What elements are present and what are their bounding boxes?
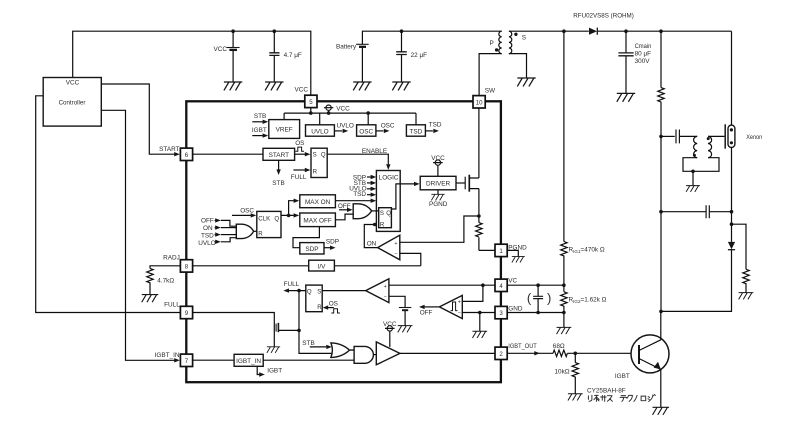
wire pin7 to IGBT_IN block	[193, 359, 235, 361]
wire G2 to latch C set	[372, 210, 379, 212]
or-gate G1 shutdown	[236, 224, 253, 238]
ground	[224, 82, 242, 90]
svg-text:PGND: PGND	[429, 201, 448, 208]
node junction VCC supply	[231, 29, 235, 33]
svg-text:5: 5	[309, 99, 313, 106]
ground branch of OFF comparator	[479, 313, 481, 332]
signal OSC into CLK	[232, 207, 256, 217]
signal OFF into G2	[338, 203, 353, 212]
svg-text:STB: STB	[272, 180, 284, 187]
wire OFF comparator minus to GND	[462, 312, 495, 314]
block I/V	[309, 260, 335, 271]
flip-flop CLK divider	[257, 211, 281, 237]
signal OFF into G1	[201, 218, 236, 227]
signal STB into gate G3	[302, 340, 332, 349]
node junction M2 drain	[297, 329, 301, 333]
wire T1 secondary to ground	[509, 54, 527, 78]
svg-text:OFF: OFF	[201, 218, 214, 225]
capacitor C2 22uF	[396, 31, 427, 82]
node junction cap GND	[536, 311, 540, 315]
or-gate G3	[331, 343, 350, 358]
block OSC	[357, 125, 376, 136]
resistor bleed	[732, 224, 750, 292]
wire pin1 to ground	[507, 250, 518, 256]
pin 6 START	[180, 148, 192, 160]
wire START from controller to pin 6	[101, 84, 180, 156]
svg-text:SW: SW	[485, 87, 496, 94]
wire VC to divider	[507, 284, 564, 286]
svg-text:IGBT_IN: IGBT_IN	[155, 352, 180, 359]
block MAX OFF	[300, 213, 336, 227]
signal TSD into LOGIC	[353, 191, 376, 198]
svg-text:+: +	[458, 300, 461, 306]
signal IGBT internal	[257, 366, 282, 376]
svg-text:+: +	[384, 284, 387, 290]
svg-text:VC: VC	[508, 277, 517, 284]
svg-text:UVLO: UVLO	[198, 240, 215, 247]
wire MAX ON to LOGIC	[335, 199, 376, 203]
pin 2 IGBT_OUT	[495, 343, 537, 360]
ground	[739, 293, 754, 300]
battery main	[336, 44, 369, 83]
signal STB from START	[272, 160, 284, 187]
signal IGBT into VREF	[252, 127, 268, 138]
pin 3 GND	[495, 306, 523, 319]
wire MAX OFF to G2	[335, 214, 353, 220]
wire VC comparator OFF plus	[462, 285, 483, 301]
transformer T2 trigger secondary	[707, 136, 712, 157]
svg-text:80 μF: 80 μF	[635, 50, 652, 57]
ground	[142, 295, 159, 303]
svg-text:RFU02VS8S (ROHM): RFU02VS8S (ROHM)	[573, 12, 634, 19]
diode D2	[728, 242, 735, 250]
ground	[392, 82, 410, 90]
block DRIVER	[420, 176, 456, 190]
flip-flop latch B full	[306, 285, 322, 312]
svg-text:VCC: VCC	[336, 106, 350, 113]
signal OSC out	[376, 122, 395, 133]
ground	[686, 186, 700, 192]
resistor RIG1 470k	[561, 242, 605, 256]
ground	[617, 93, 635, 101]
node junction FULL	[297, 289, 301, 293]
wire IGBT_IN from controller to pin 7	[101, 110, 180, 362]
svg-text:): )	[547, 290, 551, 305]
wire pin 2 to base resistor	[507, 351, 553, 355]
resistor sense	[476, 216, 495, 250]
or-gate G2 off-pulse	[353, 204, 372, 219]
wire FULL comparator out to latch B set	[322, 290, 366, 292]
capacitor Cmain	[618, 31, 651, 93]
battery VCC supply	[214, 31, 240, 82]
svg-text:+: +	[394, 241, 397, 247]
ground	[398, 326, 413, 333]
resistor 68 ohm	[553, 343, 568, 357]
node VCC of DRIVER	[431, 155, 445, 177]
label IGBT part number	[587, 388, 655, 402]
svg-text:4.7kΩ: 4.7kΩ	[157, 278, 174, 285]
flip-flop latch C	[379, 208, 392, 229]
node junction cap VC	[536, 283, 540, 287]
node junction collector	[659, 310, 663, 314]
wire xenon branch down	[660, 136, 662, 311]
svg-text:SDP: SDP	[326, 239, 339, 246]
wire FULL from controller to pin 9	[36, 96, 180, 313]
svg-text:CLK: CLK	[258, 216, 270, 223]
svg-text:Battery: Battery	[336, 44, 357, 51]
wire collector	[660, 311, 662, 339]
ground	[267, 347, 280, 353]
wire trigger coil commons	[683, 158, 719, 172]
svg-text:R: R	[313, 168, 318, 175]
svg-text:OS: OS	[295, 140, 304, 147]
svg-text:VCC: VCC	[66, 79, 80, 86]
node junction RIG1 RIG2	[562, 283, 566, 287]
transistor M1 output NMOS	[456, 175, 479, 192]
wire trigger secondary to xenon electrode	[708, 124, 725, 148]
node junction sense	[477, 214, 481, 218]
svg-text:Q: Q	[321, 152, 326, 159]
svg-text:OFF: OFF	[420, 309, 433, 316]
signal ON into G1	[203, 225, 236, 232]
svg-text:4.7 μF: 4.7 μF	[284, 52, 302, 59]
signal UVLO into G1	[198, 238, 236, 247]
wire to IGBT base	[567, 352, 639, 354]
svg-text:S: S	[317, 289, 321, 296]
svg-text:MAX ON: MAX ON	[305, 199, 331, 206]
svg-text:START: START	[159, 146, 179, 153]
capacitor C1 4.7uF	[269, 31, 302, 82]
wire G1 to CLK reset	[254, 230, 257, 232]
block SDP	[300, 243, 324, 254]
wire SW pin 10 to transformer primary	[479, 54, 502, 96]
node junction storage cap left	[659, 210, 663, 214]
capacitor optional VC	[527, 285, 552, 312]
resistor 10k	[555, 353, 579, 394]
wire VC to FULL comparator plus	[389, 284, 495, 286]
svg-text:SDP: SDP	[305, 246, 318, 253]
svg-text:−: −	[384, 295, 387, 301]
svg-text:IGBT: IGBT	[615, 373, 630, 380]
resistor RIG2 1.62k	[561, 292, 607, 306]
svg-text:Xenon: Xenon	[746, 134, 762, 141]
svg-text:TSD: TSD	[201, 232, 214, 239]
comparator FULL detect	[366, 279, 389, 303]
node junction Cmain	[624, 29, 628, 33]
wire emitter to ground	[660, 369, 662, 407]
wire CLK Q to MAX ON and MAX OFF	[281, 199, 299, 218]
wire M1 drain to pin 10	[478, 108, 480, 178]
signal FULL into latch A reset	[291, 168, 311, 181]
node junction C1	[273, 29, 277, 33]
ground branch trigger	[692, 171, 694, 185]
wire D2 to IGBT collector rail	[661, 250, 732, 312]
signal UVLO into LOGIC	[349, 186, 376, 193]
ground	[512, 257, 525, 263]
pin 9 FULL	[164, 301, 192, 318]
node PGND of DRIVER	[429, 190, 448, 208]
node junction OSC rail	[366, 111, 370, 115]
node junction pin5 rail	[309, 111, 313, 115]
transistor M2 full pulldown	[193, 313, 299, 347]
transistor Q1 IGBT	[615, 335, 669, 380]
svg-text:300V: 300V	[635, 58, 651, 65]
wire right rail	[731, 31, 733, 242]
transformer T2 trigger primary	[693, 136, 697, 157]
block UVLO	[306, 125, 335, 136]
block IGBT_IN	[234, 354, 263, 366]
svg-text:VREF: VREF	[276, 127, 293, 134]
transformer T1 secondary	[509, 31, 526, 53]
node junction minus gnd	[478, 311, 482, 315]
wire output driver to pin 2	[400, 352, 495, 354]
svg-text:IGBT: IGBT	[267, 367, 282, 374]
ground	[557, 327, 572, 334]
wire MAX OFF to SDP	[293, 227, 319, 248]
svg-text:(: (	[527, 290, 532, 305]
svg-text:22 μF: 22 μF	[411, 52, 428, 59]
xenon tube	[728, 125, 763, 147]
node junction C2	[400, 29, 404, 33]
svg-text:START: START	[269, 152, 289, 159]
node junction CLK Q	[287, 214, 291, 218]
wire FULL node down to gate G3	[299, 291, 331, 354]
svg-text:10kΩ: 10kΩ	[555, 368, 570, 375]
wire START to latch A	[295, 152, 311, 156]
node junction bleed branch	[730, 222, 734, 226]
svg-text:S: S	[313, 152, 317, 159]
svg-text:FULL: FULL	[284, 281, 300, 288]
svg-text:R: R	[380, 222, 385, 229]
wire ON comparator out to latch C reset	[364, 223, 377, 248]
controller block	[43, 78, 101, 127]
pin 10 SW	[473, 87, 496, 108]
ground	[568, 394, 583, 401]
wire GND to divider	[507, 312, 564, 314]
signal OS pulse	[295, 140, 304, 151]
signal SDP into LOGIC	[353, 175, 376, 182]
block MAX ON	[300, 195, 336, 208]
svg-text:−: −	[458, 310, 461, 316]
flip-flop latch A	[311, 148, 327, 177]
node junction RIG2 gnd	[562, 311, 566, 315]
svg-text:−: −	[394, 251, 397, 257]
node junction trigger branch	[659, 135, 663, 139]
svg-text:ON: ON	[203, 225, 213, 232]
wire pin6 to START block	[193, 153, 263, 155]
comparator OFF hysteresis	[439, 295, 462, 318]
resistor charge xenon branch	[658, 31, 664, 136]
svg-text:IGBT: IGBT	[252, 127, 267, 134]
comparator ON current sense	[367, 235, 400, 260]
signal OS into latch B reset	[323, 301, 340, 313]
svg-text:P: P	[490, 40, 494, 47]
pin 5 VCC	[295, 86, 318, 107]
buffer output driver	[373, 342, 400, 365]
resistor RADJ 4.7k	[147, 266, 181, 295]
svg-text:GND: GND	[508, 306, 523, 313]
svg-text:IGBT_IN: IGBT_IN	[236, 358, 261, 365]
signal TSD into G1	[201, 232, 236, 239]
and-gate G4	[350, 346, 374, 363]
node VCC of output driver	[383, 321, 397, 347]
node junction storage cap right	[730, 210, 734, 214]
block START	[263, 148, 295, 160]
svg-text:ENABLE: ENABLE	[362, 148, 387, 155]
svg-text:S: S	[522, 35, 526, 42]
svg-text:TSD: TSD	[429, 122, 442, 129]
ground	[353, 82, 371, 90]
svg-text:UVLO: UVLO	[337, 122, 354, 129]
reference voltage for FULL comparator	[389, 296, 411, 325]
svg-text:VCC: VCC	[431, 155, 445, 162]
pin 8 RADJ	[163, 255, 193, 272]
svg-text:VCC: VCC	[214, 46, 228, 53]
pin 1 PGND	[495, 244, 527, 256]
svg-text:OSC: OSC	[381, 122, 395, 129]
pin 7 IGBT_IN	[180, 354, 192, 366]
block VREF	[269, 120, 300, 139]
svg-text:MAX OFF: MAX OFF	[303, 218, 331, 225]
ground	[265, 82, 283, 90]
svg-text:IGBT_OUT: IGBT_OUT	[508, 343, 537, 350]
wire secondary output rail	[509, 30, 732, 32]
wire divider rail	[563, 31, 565, 327]
wire ENABLE latch A to LOGIC	[327, 148, 390, 170]
svg-text:Q: Q	[307, 289, 312, 296]
wire internal VCC rail	[284, 108, 416, 125]
signal TSD out	[425, 122, 441, 133]
svg-text:Cmain: Cmain	[635, 43, 652, 50]
svg-text:10: 10	[476, 99, 483, 106]
svg-text:RADJ: RADJ	[163, 255, 180, 262]
svg-text:TSD: TSD	[353, 191, 366, 198]
node junction VC	[481, 283, 485, 287]
ground	[472, 331, 487, 338]
ground	[517, 78, 535, 86]
svg-text:FULL: FULL	[164, 301, 180, 308]
block TSD	[406, 125, 425, 136]
wire VCC rail from controller to pin 5	[73, 31, 311, 95]
svg-text:STB: STB	[302, 340, 314, 347]
svg-text:S: S	[380, 210, 384, 217]
svg-text:VCC: VCC	[383, 321, 397, 328]
svg-text:LOGIC: LOGIC	[379, 175, 399, 182]
transformer T1 primary	[490, 31, 502, 53]
signal UVLO out	[334, 122, 354, 133]
svg-text:FULL: FULL	[291, 174, 307, 181]
signal STB into VREF	[252, 113, 268, 124]
svg-text:OSC: OSC	[240, 207, 254, 214]
svg-text:68Ω: 68Ω	[553, 343, 565, 350]
node junction trigger ground	[691, 170, 695, 174]
node junction divider tap	[562, 29, 566, 33]
block LOGIC	[376, 171, 400, 232]
svg-text:DRIVER: DRIVER	[426, 181, 451, 188]
signal FULL out of latch B	[283, 281, 305, 293]
wire M1 source to sense node	[478, 189, 480, 216]
wire IGBT_IN block to gate G4	[263, 359, 354, 361]
svg-text:R: R	[317, 304, 322, 311]
wire sense to ON comparator	[400, 216, 479, 242]
svg-text:I/V: I/V	[318, 263, 327, 270]
IC outline	[186, 101, 501, 382]
svg-text:OSC: OSC	[359, 129, 373, 136]
signal SDP out	[324, 239, 339, 250]
diode D1 rectifier	[573, 12, 634, 34]
wire battery rail to transformer primary	[362, 31, 501, 44]
svg-text:STB: STB	[254, 113, 266, 120]
svg-text:R: R	[258, 230, 263, 237]
wire ON comparator minus to I/V	[400, 253, 421, 265]
svg-text:CY25BAH-8F: CY25BAH-8F	[587, 388, 626, 395]
node junction base	[574, 352, 578, 356]
svg-text:TSD: TSD	[410, 129, 423, 136]
pin 4 VC	[495, 277, 518, 291]
signal STB into LOGIC	[354, 180, 377, 187]
wire RADJ I/V line	[193, 265, 421, 267]
wire LOGIC output to DRIVER	[391, 182, 419, 209]
signal OFF out	[419, 305, 439, 317]
svg-text:VCC: VCC	[295, 86, 309, 93]
capacitor trigger	[661, 130, 697, 144]
svg-text:OS: OS	[329, 301, 338, 308]
svg-text:ON: ON	[367, 240, 377, 247]
svg-text:Q: Q	[274, 216, 279, 223]
svg-text:Controller: Controller	[59, 99, 87, 106]
ground	[653, 407, 670, 415]
svg-text:Q: Q	[386, 210, 391, 217]
svg-text:UVLO: UVLO	[311, 129, 328, 136]
capacitor storage	[661, 205, 732, 218]
node VCC tap	[324, 105, 350, 115]
node junction xenon branch	[659, 29, 663, 33]
